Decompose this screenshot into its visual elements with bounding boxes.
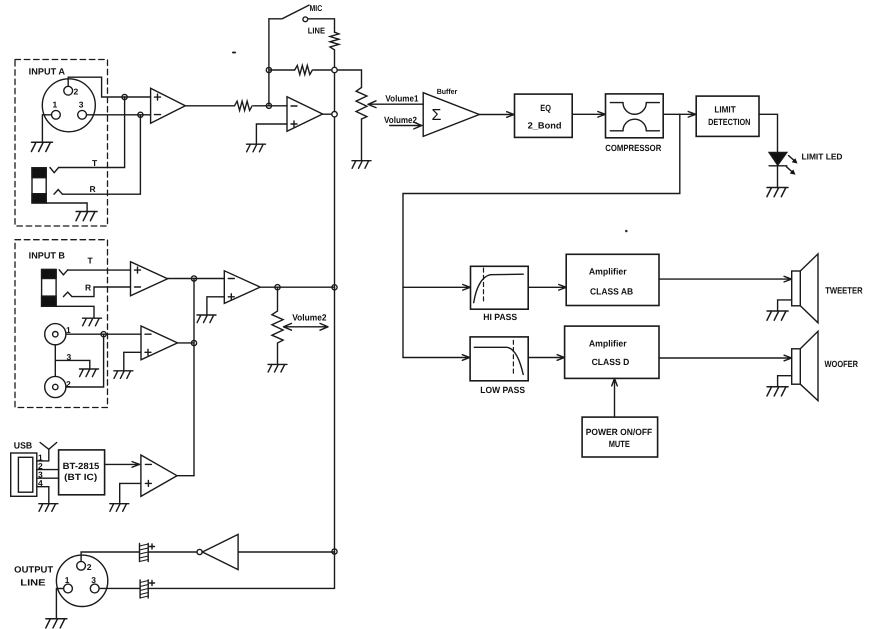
jack J3 tip contact xyxy=(59,270,68,275)
potentiometer VR1 xyxy=(356,88,367,119)
wire ring to - node xyxy=(62,115,140,194)
resistor R3 xyxy=(295,65,313,74)
svg-text:TWEETER: TWEETER xyxy=(825,285,863,295)
wire R1 to op-amp U2 - input xyxy=(254,105,288,107)
wire R2 to node xyxy=(334,50,336,70)
hi pass cutoff dashed line xyxy=(483,268,485,301)
svg-text:LIMIT LED: LIMIT LED xyxy=(802,152,843,162)
node RCA join xyxy=(101,332,106,337)
op-amp U3 buffer xyxy=(423,93,479,137)
wire node to volume pot xyxy=(335,70,362,88)
wire pin1 to ground xyxy=(42,115,51,142)
svg-text:(BT IC): (BT IC) xyxy=(64,472,97,482)
ground xyxy=(114,371,133,379)
pin 1 line xyxy=(37,460,49,462)
XLR J1 pin 3 xyxy=(78,110,87,119)
wire sleeve to ground xyxy=(46,203,87,211)
antenna xyxy=(40,443,57,461)
ground xyxy=(767,387,788,396)
op-amp U4 xyxy=(131,262,168,296)
jack J2 ring contact xyxy=(54,190,62,195)
jack J2 TRS body xyxy=(32,168,46,203)
wire inverter input from bus xyxy=(238,551,334,553)
svg-text:3: 3 xyxy=(91,575,96,585)
arrow VR2 wiper double xyxy=(284,323,329,330)
wire U7 + input to ground xyxy=(120,483,141,503)
ground xyxy=(110,504,129,512)
speaker woofer xyxy=(792,331,818,400)
svg-text:T: T xyxy=(88,255,94,265)
arrow mute to class d xyxy=(612,378,618,417)
compressor curve bottom xyxy=(610,119,659,131)
low pass curve xyxy=(474,347,523,374)
block power on/off mute xyxy=(582,417,658,457)
node feedback left xyxy=(266,67,271,72)
speaker tweeter xyxy=(792,254,818,323)
wire capacitor to inverter xyxy=(148,551,197,553)
XLR J4 pin 2 xyxy=(77,561,86,570)
arrow BT to op-amp U7 xyxy=(105,462,140,468)
node mix xyxy=(332,67,337,72)
ground xyxy=(39,504,58,512)
svg-text:Volume2: Volume2 xyxy=(384,115,417,125)
pin 3 line xyxy=(37,477,59,479)
block BT-2815 xyxy=(59,450,105,495)
block hi pass filter xyxy=(471,266,529,309)
svg-text:USB: USB xyxy=(14,441,33,451)
input A dashed enclosure xyxy=(15,60,108,227)
wire compressor tap to crossover bus xyxy=(403,114,680,357)
wire MIC select riser xyxy=(268,19,270,106)
arrow bus to low pass xyxy=(403,355,470,361)
svg-text:MIC: MIC xyxy=(310,3,323,13)
wire U6 output to bus2 xyxy=(178,342,195,344)
svg-text:INPUT A: INPUT A xyxy=(29,67,66,77)
wire bus down to pin3 line xyxy=(148,552,334,589)
wire tip to op-amp U4 + input xyxy=(68,269,131,271)
op-amp U2 xyxy=(287,97,323,132)
svg-text:Buffer: Buffer xyxy=(437,87,458,96)
wire shield to ground xyxy=(55,360,90,368)
node bus join xyxy=(332,285,337,290)
svg-text:OUTPUT: OUTPUT xyxy=(14,565,54,575)
wire LED to ground xyxy=(777,166,779,187)
input B dashed enclosure xyxy=(15,240,108,408)
wire woofer to ground xyxy=(778,376,792,386)
svg-text:R: R xyxy=(90,184,96,194)
ground xyxy=(197,315,216,323)
pin 2 line xyxy=(37,469,59,471)
op-amp U6 xyxy=(141,326,178,360)
arrow Volume2 into buffer xyxy=(390,122,422,129)
ground xyxy=(767,311,788,320)
svg-text:MUTE: MUTE xyxy=(609,439,630,449)
svg-text:2: 2 xyxy=(74,87,79,97)
svg-text:1: 1 xyxy=(53,100,58,110)
capacitor C2 xyxy=(140,580,154,598)
inverter U8 xyxy=(197,534,238,569)
wire pin3 to op-amp U1 - input xyxy=(87,114,151,116)
node pot tap xyxy=(275,285,280,290)
svg-text:INPUT B: INPUT B xyxy=(29,251,66,261)
svg-text:LINE: LINE xyxy=(308,26,325,36)
wire RCA shield link xyxy=(54,345,56,377)
svg-text:Amplifier: Amplifier xyxy=(589,339,627,349)
resistor R1 xyxy=(235,101,253,110)
block limit detection xyxy=(696,96,759,136)
node U2 out xyxy=(332,112,337,117)
XLR J4 pin 1 xyxy=(64,584,73,593)
wire U1 output xyxy=(185,105,234,107)
ground xyxy=(767,188,788,197)
wire feedback node left xyxy=(269,69,295,71)
main bus vertical xyxy=(334,70,336,552)
block low pass filter xyxy=(470,337,528,381)
resistor R2 xyxy=(330,32,339,50)
wire class d to woofer xyxy=(659,355,792,361)
ground xyxy=(352,161,371,169)
wire U5 output to bus xyxy=(260,286,334,288)
wire U4 output xyxy=(168,278,225,280)
arrow EQ to compressor xyxy=(572,112,605,118)
arrow bus to hi pass xyxy=(403,285,470,291)
wire U5 + input to ground xyxy=(207,297,224,315)
wire class ab to tweeter xyxy=(659,276,792,282)
svg-text:Volume1: Volume1 xyxy=(385,94,418,104)
svg-text:WOOFER: WOOFER xyxy=(825,359,859,369)
wire pin2 to op-amp U1 + input xyxy=(68,77,150,97)
XLR J4 pin 3 xyxy=(90,584,99,593)
block compressor xyxy=(606,94,664,138)
wire RCA2 riser xyxy=(66,334,104,387)
ground xyxy=(46,619,67,628)
LED emission arrows xyxy=(789,156,796,162)
hi pass curve xyxy=(474,274,524,303)
RCA jack 2 xyxy=(45,376,66,397)
op-amp U7 xyxy=(141,455,177,496)
svg-text:LINE: LINE xyxy=(20,578,45,588)
capacitor C1 xyxy=(140,544,155,562)
connector XLR J1 shell xyxy=(42,79,95,132)
node T-branch on + line xyxy=(122,94,127,99)
op-amp U1 xyxy=(151,88,186,123)
ground xyxy=(83,318,102,326)
USB connector body xyxy=(11,453,37,496)
potentiometer VR2 xyxy=(272,287,283,364)
node bus to line out xyxy=(332,549,337,554)
wire sleeve to ground xyxy=(56,306,94,317)
bus2 vertical xyxy=(193,279,195,476)
LED D1 xyxy=(769,152,787,165)
svg-text:2: 2 xyxy=(87,562,92,572)
svg-text:CLASS D: CLASS D xyxy=(592,357,630,367)
wire to LED xyxy=(759,114,778,152)
node U6 out xyxy=(191,340,196,345)
svg-text:POWER ON/OFF: POWER ON/OFF xyxy=(586,427,653,437)
jack J3 ring contact xyxy=(63,292,72,297)
block amplifier class D xyxy=(565,326,659,378)
jack J2 tip contact xyxy=(50,168,59,173)
RCA jack 1 xyxy=(45,324,66,345)
ground xyxy=(80,369,99,377)
wire tweeter to ground xyxy=(778,300,792,311)
jack J3 TRS body xyxy=(42,270,57,307)
svg-text:CLASS AB: CLASS AB xyxy=(590,287,634,297)
arrow hi pass to class ab xyxy=(528,285,566,291)
op-amp U5 xyxy=(224,271,260,304)
wire LINE contact to resistor xyxy=(308,19,335,33)
XLR J1 pin 2 xyxy=(64,86,73,95)
low pass cutoff dashed line xyxy=(512,340,514,374)
arrow VR1 wiper xyxy=(368,101,423,108)
svg-text:2_Bond: 2_Bond xyxy=(528,121,562,131)
wire U6 + input to ground xyxy=(124,352,141,370)
ground xyxy=(268,364,287,372)
stray dot mark xyxy=(625,230,628,233)
ground xyxy=(31,142,52,151)
XLR J1 pin 1 xyxy=(52,110,61,119)
wire tip to + node xyxy=(59,97,125,168)
wire ring to op-amp U4 - input xyxy=(72,287,131,297)
wire R3 to node xyxy=(314,69,335,71)
svg-text:LIMIT: LIMIT xyxy=(714,104,736,114)
svg-text:R: R xyxy=(85,282,91,292)
arrow U3 to EQ xyxy=(479,112,514,118)
wire compressor to limit detection xyxy=(663,112,696,118)
arrow low pass to class d xyxy=(528,355,564,361)
svg-text:BT-2815: BT-2815 xyxy=(63,461,100,471)
block amplifier class AB xyxy=(566,254,659,305)
stray dash mark xyxy=(233,52,236,54)
wire U2 + input to ground xyxy=(256,124,287,144)
svg-text:Amplifier: Amplifier xyxy=(589,267,627,277)
wire U2 output xyxy=(323,113,335,115)
pin 4 line xyxy=(37,487,49,503)
svg-text:LOW PASS: LOW PASS xyxy=(480,385,525,395)
svg-text:Volume2: Volume2 xyxy=(292,313,326,323)
wire RCA1 to op-amp U6 - input xyxy=(66,333,141,335)
wire capacitor to pin3 xyxy=(99,587,140,589)
node U2 inverting input xyxy=(266,103,271,108)
wire pin2 to capacitor xyxy=(81,552,139,561)
svg-text:COMPRESSOR: COMPRESSOR xyxy=(605,143,661,153)
svg-text:3: 3 xyxy=(79,100,84,110)
svg-text:HI PASS: HI PASS xyxy=(483,312,517,322)
block EQ xyxy=(515,94,573,137)
svg-text:Σ: Σ xyxy=(432,107,442,124)
svg-text:T: T xyxy=(92,158,98,168)
node U4 out xyxy=(191,276,196,281)
ground xyxy=(247,144,266,152)
node R-branch on - line xyxy=(138,112,143,117)
ground xyxy=(76,212,97,221)
wire VR1 to ground xyxy=(361,119,363,160)
svg-text:DETECTION: DETECTION xyxy=(708,117,750,127)
svg-text:EQ: EQ xyxy=(540,103,551,113)
wire U7 output to bus2 xyxy=(177,475,194,477)
compressor curve top xyxy=(610,103,659,115)
svg-text:4: 4 xyxy=(38,478,43,488)
switch SW1 MIC/LINE xyxy=(269,5,309,22)
wire pin1 to ground xyxy=(56,589,63,618)
svg-text:1: 1 xyxy=(65,575,70,585)
connector XLR J4 shell xyxy=(56,555,107,606)
